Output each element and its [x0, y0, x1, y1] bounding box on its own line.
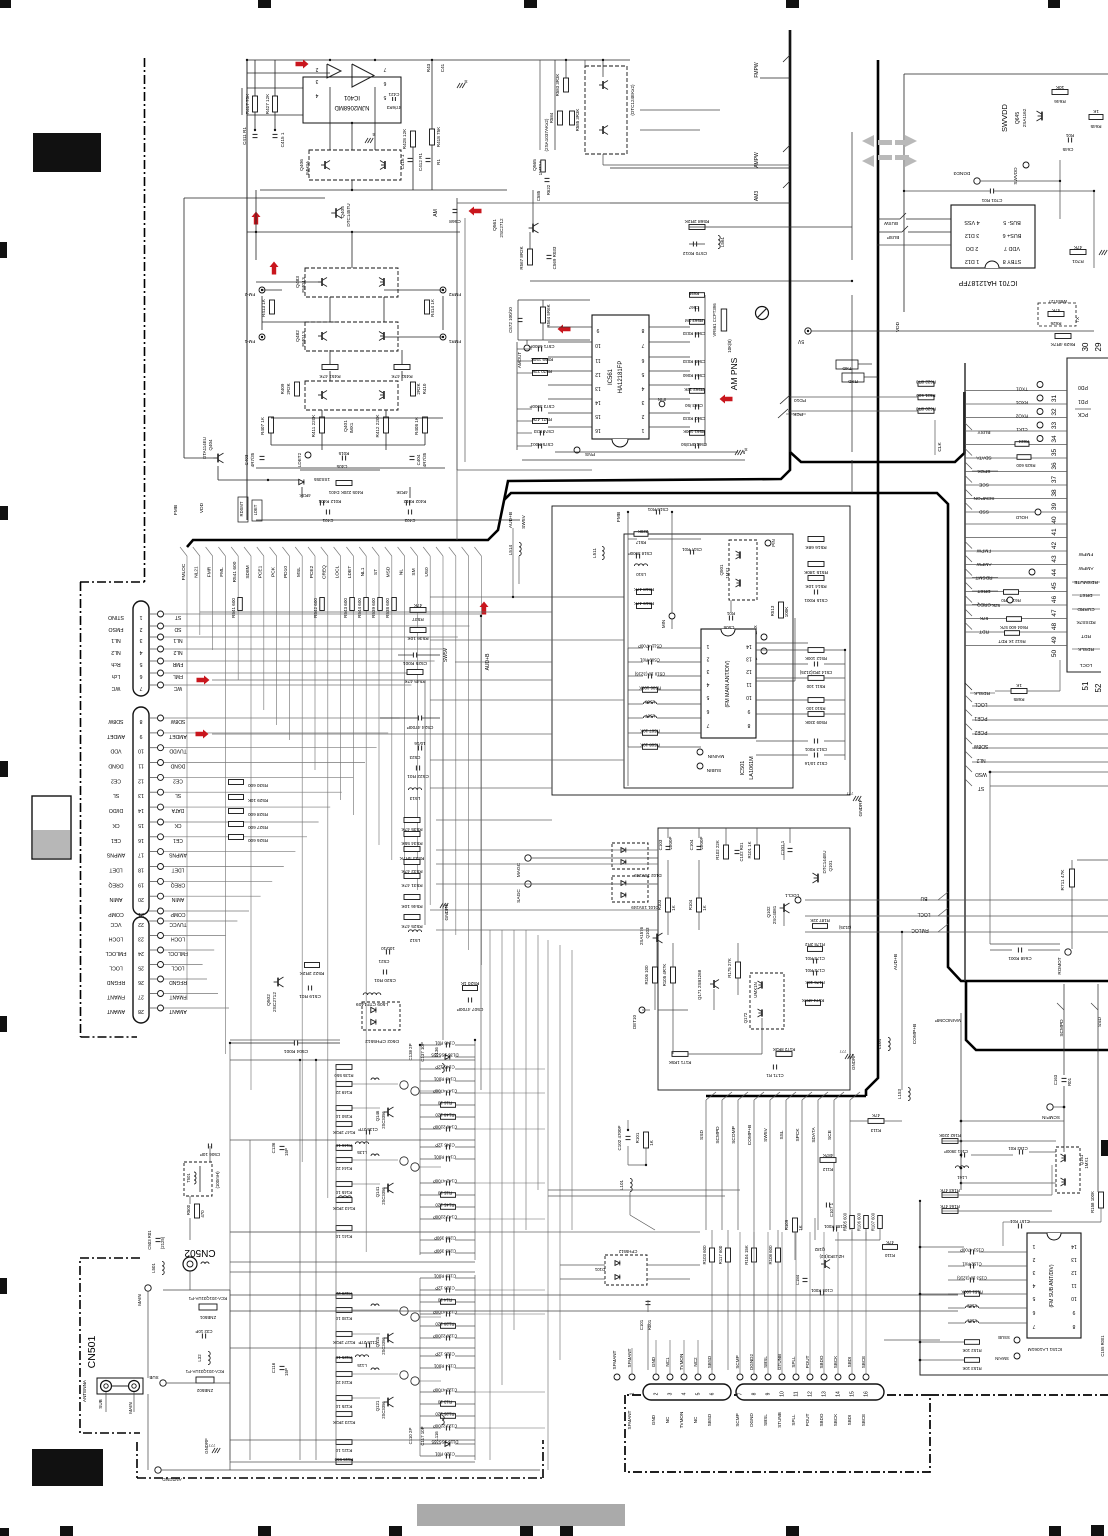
terminal MIN [669, 613, 675, 619]
svg-text:COMP+B: COMP+B [747, 1125, 753, 1145]
svg-text:R541 600: R541 600 [231, 598, 236, 618]
svg-text:R409: R409 [280, 383, 285, 394]
svg-text:C564 R060: C564 R060 [682, 373, 705, 378]
svg-text:NL2: NL2 [111, 649, 121, 655]
svg-text:L136: L136 [434, 1047, 439, 1057]
svg-text:R646: R646 [1054, 98, 1066, 104]
resistor R172 8R2K [776, 1052, 792, 1057]
resistor R711 47K [1070, 869, 1075, 887]
capacitor C421 47/6R3 [392, 97, 394, 101]
svg-text:UMX1N: UMX1N [753, 982, 758, 997]
svg-text:C32 10P: C32 10P [195, 1329, 212, 1334]
terminal 5V [805, 328, 811, 334]
svg-text:2: 2 [654, 1392, 660, 1395]
svg-text:C516 R01: C516 R01 [647, 507, 668, 512]
SFMANT pin 4 (TVMON) [681, 1374, 687, 1380]
op-amp IC401 triangle B (small) [327, 64, 341, 78]
svg-text:C519 R01: C519 R01 [299, 993, 321, 999]
svg-text:BUSP: BUSP [887, 235, 900, 240]
component R16 [441, 1103, 456, 1108]
resistor R410 2R2K [411, 382, 416, 396]
resistor R409 2R2K [295, 382, 300, 396]
svg-text:LOCH: LOCH [171, 936, 185, 942]
component R128 [441, 1324, 456, 1329]
svg-text:12: 12 [138, 777, 144, 783]
svg-text:R621 600: R621 600 [916, 393, 936, 398]
resistor R526 [229, 835, 244, 840]
svg-text:Q146: Q146 [375, 1110, 380, 1121]
row wire [352, 1373, 398, 1375]
wire WSD down [989, 772, 991, 944]
dash-dot bottom-right horizontal [930, 1394, 1108, 1396]
svg-text:R152 10K: R152 10K [962, 1348, 981, 1353]
svg-text:R517: R517 [635, 540, 646, 545]
terminal SAGC [525, 881, 531, 887]
terminal FM-1 [259, 334, 265, 340]
component C128 [445, 1288, 447, 1293]
resistor R701 47K [1070, 250, 1086, 255]
transistor Q645 [1041, 112, 1043, 121]
resistor R412 220K [384, 417, 389, 433]
resistor R104b 1K [697, 898, 702, 912]
bus slant joint [385, 547, 392, 556]
resistor R528 [229, 809, 244, 814]
transistor Q126 2SC3356 [387, 1334, 389, 1343]
transistor pair Q161 1MX1 [1056, 1147, 1080, 1193]
svg-text:L508: L508 [645, 700, 655, 705]
svg-text:2SC3356: 2SC3356 [381, 1111, 386, 1129]
wire left double vertical [246, 60, 248, 520]
svg-text:7: 7 [1032, 1323, 1035, 1329]
svg-text:2SC4081: 2SC4081 [772, 905, 777, 924]
transformer T501 [184, 1162, 212, 1196]
svg-text:LDET: LDET [347, 566, 353, 578]
svg-text:2SC2712: 2SC2712 [499, 218, 504, 238]
terminal FMR1 [440, 334, 446, 340]
svg-text:CE1: CE1 [111, 837, 121, 843]
resistor R625 600 [1017, 455, 1031, 460]
svg-text:46: 46 [1051, 596, 1058, 604]
svg-text:GNDRF: GNDRF [851, 1054, 856, 1070]
svg-text:LDET: LDET [253, 504, 258, 515]
svg-text:2200P: 2200P [699, 836, 704, 849]
svg-text:35: 35 [1051, 449, 1058, 457]
svg-text:R174 4R7K: R174 4R7K [802, 998, 825, 1003]
svg-text:2 DO: 2 DO [966, 245, 979, 251]
terminal MAININ [697, 749, 703, 755]
svg-text:FML: FML [219, 567, 225, 577]
registration mark right 1 [1101, 1140, 1108, 1156]
svg-text:R562 12K: R562 12K [684, 387, 704, 392]
svg-text:RFGND: RFGND [107, 979, 126, 985]
component R509 [808, 712, 824, 717]
svg-text:C514 2R2(2125): C514 2R2(2125) [799, 670, 832, 675]
svg-text:7: 7 [738, 1392, 744, 1395]
component C129 [445, 1276, 447, 1281]
SFMANT pin 1 (SFMANT) [629, 1374, 635, 1380]
black label block top-left [33, 133, 101, 172]
svg-text:R507 10K: R507 10K [640, 729, 660, 734]
SFMANT pin 2 (GND) [653, 1374, 659, 1380]
svg-text:L501: L501 [151, 1263, 156, 1273]
svg-text:C525 R001: C525 R001 [403, 660, 428, 666]
wires top AM rails [539, 60, 541, 150]
capacitor C520 R01 [382, 970, 384, 975]
resistor R533 [404, 847, 420, 852]
thick border FM MAIN top [504, 493, 1108, 981]
svg-text:R101: R101 [635, 1132, 640, 1143]
component R508 [643, 745, 658, 750]
bus slant joint [436, 547, 443, 556]
svg-text:MSD: MSD [386, 566, 392, 577]
component R125 [441, 1414, 456, 1419]
svg-text:SCMP: SCMP [735, 1413, 740, 1426]
inductor L142 [371, 1154, 379, 1156]
component C127 [445, 1312, 447, 1317]
pot VR561 CCPT396 10K(B) [721, 309, 727, 331]
bus slant joint [372, 547, 379, 556]
resistor R545 47K [407, 670, 423, 675]
component C148 [445, 1043, 447, 1048]
svg-text:DGND: DGND [749, 1413, 754, 1427]
svg-text:4: 4 [641, 385, 644, 391]
resistor R417 75K [253, 96, 258, 112]
svg-text:TVMON: TVMON [679, 1354, 684, 1371]
resistor R517 220K [634, 532, 648, 537]
svg-text:MAININ: MAININ [707, 753, 724, 759]
component R561 [690, 431, 705, 436]
FM MAIN outer thin box [552, 506, 850, 795]
svg-text:Q501: Q501 [719, 564, 724, 576]
svg-text:L115: L115 [357, 1363, 367, 1368]
resistor R105 b [850, 1216, 855, 1229]
svg-text:CN502: CN502 [184, 1247, 216, 1258]
resistor R514 10K [808, 576, 824, 581]
CN501 jack box [97, 1378, 143, 1394]
svg-text:15P: 15P [284, 1368, 289, 1376]
capacitor C521 100/10 [385, 950, 387, 955]
svg-text:5: 5 [641, 371, 644, 377]
svg-text:MAIN: MAIN [137, 1294, 142, 1305]
wire AUD+B v [512, 528, 514, 597]
resistor R569 150K [533, 359, 548, 364]
bus slant joint [334, 547, 341, 556]
component D135 [445, 1055, 450, 1060]
resistor R428 12K [411, 131, 416, 147]
wires bottom center [548, 1189, 740, 1191]
IC701 box [951, 205, 1035, 268]
svg-text:NC: NC [665, 1416, 670, 1423]
svg-text:HA12181FP: HA12181FP [618, 361, 624, 394]
thick border bus vertical (main) [866, 60, 878, 1096]
capacitor C575 R001 [537, 444, 539, 449]
op-amp U IC401 triangle A [352, 64, 374, 87]
resistor R513 100K [779, 602, 784, 618]
svg-text:C575 R001: C575 R001 [530, 442, 553, 447]
svg-text:(FM MAIN ANT/DIV): (FM MAIN ANT/DIV) [725, 660, 731, 707]
svg-text:SFMANT: SFMANT [612, 1350, 617, 1369]
svg-text:11: 11 [794, 1391, 800, 1396]
svg-text:C568: C568 [449, 218, 461, 224]
component C561 [694, 444, 696, 449]
capacitor C416 1 [408, 157, 413, 159]
svg-text:WC: WC [111, 685, 120, 691]
resistor R516 68K [808, 537, 824, 542]
svg-text:SSD: SSD [699, 1130, 705, 1140]
component C285 [445, 1251, 447, 1256]
red arrow left (IC561 pin3) [720, 395, 733, 404]
svg-text:40: 40 [1051, 516, 1058, 524]
resistor R611 0R0 [1004, 590, 1019, 595]
svg-text:COMP+B: COMP+B [912, 1024, 918, 1044]
resistor R129 22 [336, 1294, 352, 1299]
svg-text:57K: 57K [992, 603, 1000, 608]
capacitor C571 6800P [537, 347, 539, 352]
svg-text:SCE: SCE [827, 1130, 833, 1140]
svg-text:47/6R3: 47/6R3 [386, 105, 401, 110]
coil pair [400, 1081, 408, 1089]
bank row extension wires [475, 1068, 545, 1070]
svg-text:LDET: LDET [109, 867, 123, 873]
terminal MAGC [525, 855, 531, 861]
SFMANT pin 14 (SBCK) [835, 1374, 841, 1380]
component R562 [690, 389, 705, 394]
svg-text:DGND2: DGND2 [749, 1354, 754, 1371]
wires FM SUB [961, 1120, 1064, 1122]
long rails middle connecting to FM MAIN [430, 596, 513, 598]
wires AGC block [667, 860, 669, 898]
svg-text:R171 1R5K: R171 1R5K [669, 1060, 692, 1065]
transistor Q502 2SC2712 [277, 978, 279, 987]
wire top rail right [904, 73, 1108, 75]
svg-text:S: S [464, 78, 467, 84]
svg-text:R515 180K: R515 180K [803, 569, 828, 575]
inductor L513 [408, 788, 421, 790]
svg-text:SCMPON: SCMPON [973, 495, 995, 501]
svg-text:8: 8 [139, 718, 142, 724]
svg-text:R528 600: R528 600 [248, 812, 268, 817]
FM SUB thin block border [920, 1201, 1108, 1375]
svg-text:R546 10K: R546 10K [401, 903, 423, 909]
svg-text:9: 9 [1072, 1309, 1075, 1315]
svg-text:2SC3356: 2SC3356 [381, 1401, 386, 1419]
resistor R685 1K [1011, 689, 1027, 694]
svg-text:(2125): (2125) [160, 1236, 165, 1249]
terminal 57K pin47 [1007, 597, 1013, 603]
resistor R407 1K [269, 417, 274, 433]
svg-text:SCMP: SCMP [735, 1355, 740, 1368]
wire rail y232 [247, 231, 460, 233]
svg-text:R500: R500 [186, 1204, 191, 1215]
svg-text:2: 2 [139, 626, 142, 632]
SFMANT connector body 1-6 [643, 1384, 731, 1400]
bus slant joint [180, 547, 187, 556]
svg-text:NL1: NL1 [111, 637, 121, 643]
svg-text:49: 49 [1051, 636, 1058, 644]
svg-text:Q101: Q101 [828, 860, 833, 872]
resistor R146 10 [336, 1146, 352, 1151]
resistor R629 4R7K [1055, 334, 1071, 339]
svg-text:MAIN: MAIN [128, 1402, 133, 1413]
svg-text:L561: L561 [720, 236, 725, 247]
svg-text:L153: L153 [897, 1088, 902, 1099]
resistor R626 47K [1048, 312, 1064, 317]
svg-text:2SC3356: 2SC3356 [381, 1187, 386, 1205]
resistor R645 1K [1089, 115, 1103, 120]
resistor R534 [404, 832, 420, 837]
resistor R171 1R5K [672, 1052, 688, 1057]
capacitor C572 100/10 [518, 317, 523, 319]
svg-text:13: 13 [1071, 1256, 1077, 1262]
svg-text:1K: 1K [1015, 683, 1022, 688]
svg-text:CE1: CE1 [173, 837, 183, 843]
wires detector to bus [627, 1120, 629, 1130]
svg-text:Q404: Q404 [208, 439, 213, 451]
long rail y1311 [230, 1310, 958, 1312]
svg-text:C523: C523 [409, 755, 420, 760]
svg-text:AMPW: AMPW [976, 561, 991, 567]
svg-text:4: 4 [706, 681, 709, 687]
component C509 [647, 660, 649, 665]
capacitor C518 3900P [635, 554, 637, 559]
page border dash-dot horizontal at connector bottom [81, 1036, 138, 1038]
wire AM3 rail extension [457, 202, 610, 204]
inductor L511 [602, 546, 604, 559]
svg-text:10K: 10K [1055, 84, 1064, 90]
svg-text:HZU3R3(B2): HZU3R3(B2) [819, 1254, 844, 1259]
svg-text:8: 8 [641, 327, 644, 333]
component C152 [969, 1264, 971, 1269]
ground S (mid) [365, 138, 368, 143]
svg-text:SD: SD [174, 626, 181, 632]
resistor R135 550 [336, 1065, 352, 1070]
svg-text:FMG13: FMG13 [301, 277, 306, 293]
bus slant joint [295, 547, 302, 556]
svg-text:1 D12: 1 D12 [965, 258, 979, 264]
resistor R147 2R2K [336, 1122, 352, 1127]
svg-text:R567 8R2K: R567 8R2K [519, 246, 524, 269]
svg-text:POUT: POUT [805, 1355, 810, 1368]
bus slant joint [270, 547, 277, 556]
SFMANT pin 13 (SBDO) [821, 1374, 827, 1380]
svg-text:T501: T501 [186, 1173, 191, 1183]
resistor R163 47K [942, 1193, 958, 1198]
resistor R110 47K [883, 1245, 898, 1250]
svg-text:16: 16 [595, 427, 601, 433]
svg-text:4R7/35: 4R7/35 [422, 452, 427, 467]
svg-text:TUVCC: TUVCC [169, 921, 187, 927]
component C124 [445, 1366, 447, 1371]
svg-text:WSD: WSD [975, 771, 987, 777]
svg-text:IC501: IC501 [740, 761, 746, 776]
svg-text:R125 10: R125 10 [335, 1404, 352, 1409]
wire top rail 1 [247, 59, 440, 61]
svg-text:DTA114EU: DTA114EU [202, 437, 207, 459]
svg-text:AMPNS: AMPNS [168, 852, 186, 858]
wire 5V rail [811, 330, 1094, 332]
svg-text:GND: GND [651, 1356, 656, 1367]
resistor R527 [229, 822, 244, 827]
transistor Q561 2SC2712 [532, 224, 534, 233]
svg-text:R145 10: R145 10 [335, 1190, 352, 1195]
svg-text:BUS+ 6: BUS+ 6 [1003, 232, 1022, 238]
svg-text:Q182: Q182 [814, 1247, 825, 1252]
svg-text:1K: 1K [702, 905, 707, 910]
terminal SUB [160, 1380, 166, 1386]
svg-text:SDATA: SDATA [976, 455, 992, 461]
resistor R518 47K [637, 590, 652, 595]
svg-text:C163: C163 [1053, 1074, 1058, 1085]
resistor R106 100 [653, 967, 658, 983]
svg-text:20: 20 [138, 896, 144, 902]
thick border AM section right [790, 392, 965, 462]
svg-text:10: 10 [780, 1391, 786, 1397]
svg-text:C135 27P: C135 27P [358, 1127, 378, 1132]
bus slant joint [410, 547, 417, 556]
svg-text:R561 100K: R561 100K [683, 429, 705, 434]
component L151 [965, 1321, 978, 1323]
component R148 [441, 1115, 456, 1120]
wire ANTGND rail [230, 1469, 540, 1471]
svg-text:3: 3 [315, 78, 318, 84]
svg-text:C520 R01: C520 R01 [374, 977, 396, 983]
capacitor C524 4700P [417, 716, 419, 721]
resistor R452 47K [394, 365, 410, 370]
svg-text:L116: L116 [434, 1431, 439, 1441]
svg-text:AMPW: AMPW [754, 152, 760, 168]
svg-text:14: 14 [595, 399, 601, 405]
resistor R108 [776, 1248, 781, 1262]
svg-text:TX: TX [1075, 316, 1081, 323]
resistor R109 1K [793, 1218, 798, 1232]
svg-text:1K: 1K [1092, 109, 1099, 114]
svg-text:TVMON: TVMON [679, 1412, 684, 1429]
transistor Q103 2SA1576 [656, 934, 658, 943]
svg-text:9: 9 [596, 327, 599, 333]
component C147 [445, 1091, 447, 1096]
svg-text:C115 27P: C115 27P [358, 1340, 377, 1345]
svg-text:MSL: MSL [296, 567, 302, 577]
svg-text:PD10: PD10 [794, 397, 806, 403]
svg-text:7: 7 [139, 685, 142, 691]
thick border FM SUB corner [966, 981, 1108, 1050]
capacitor C184b [803, 1277, 808, 1279]
bus slant joint [218, 547, 225, 556]
svg-text:220K: 220K [638, 529, 648, 534]
resistor R162 220K [942, 1139, 958, 1144]
pin circles TXO1/RXO1/RXO2/CLK1/BUSY [1037, 382, 1043, 388]
svg-text:FM-1: FM-1 [244, 339, 255, 344]
svg-text:C567: C567 [688, 305, 699, 310]
svg-text:C101: C101 [639, 1319, 644, 1330]
svg-text:SSD: SSD [979, 509, 989, 515]
FET pair Q501 1MX1 [729, 540, 757, 600]
registration mark left 1 [0, 242, 7, 258]
IC561 notch [612, 439, 628, 447]
junction dots texture [246, 59, 248, 61]
svg-text:47K: 47K [872, 1113, 880, 1118]
inductor L135b [355, 1142, 368, 1144]
IC151 notch [1047, 1233, 1061, 1240]
svg-text:R612 1K RDT: R612 1K RDT [998, 639, 1026, 644]
bus slant joint [308, 547, 315, 556]
svg-text:C136: C136 [271, 1142, 276, 1153]
wire top rail 2 [247, 72, 330, 74]
svg-text:11: 11 [746, 681, 751, 687]
coil pair [400, 1307, 408, 1315]
svg-text:C415 1: C415 1 [280, 132, 285, 147]
svg-text:R514 10K: R514 10K [805, 583, 827, 589]
